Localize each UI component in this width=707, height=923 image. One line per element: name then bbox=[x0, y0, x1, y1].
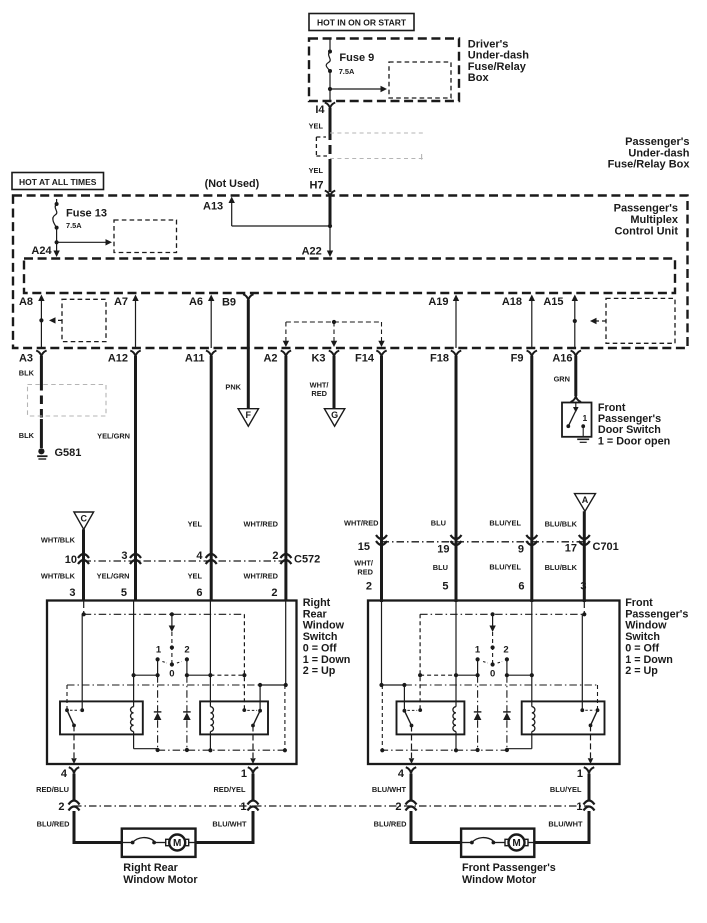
motor internal contact arc bbox=[461, 842, 472, 844]
svg-text:Window: Window bbox=[625, 620, 667, 632]
svg-text:A: A bbox=[582, 495, 589, 505]
left wire to connector bbox=[73, 774, 76, 802]
multiplex internal bus box (dashed) bbox=[24, 259, 675, 294]
svg-text:WHT/BLK: WHT/BLK bbox=[41, 572, 76, 581]
svg-text:Under-dash: Under-dash bbox=[628, 147, 689, 159]
wire F9 (BLU/YEL) bbox=[530, 356, 533, 602]
svg-text:6: 6 bbox=[518, 581, 524, 593]
wire F18 (BLU) bbox=[455, 356, 458, 602]
svg-text:Window Motor: Window Motor bbox=[462, 874, 537, 886]
svg-text:GRN: GRN bbox=[554, 375, 570, 384]
connector C701 pin 15 bbox=[376, 535, 387, 539]
selector contact 2 bbox=[185, 657, 189, 661]
svg-text:YEL/GRN: YEL/GRN bbox=[97, 572, 130, 581]
svg-text:WHT/: WHT/ bbox=[354, 559, 373, 568]
wire A16 (GRN) to door switch bbox=[574, 356, 577, 396]
svg-text:2: 2 bbox=[503, 645, 508, 656]
svg-text:PNK: PNK bbox=[225, 383, 241, 392]
relay K2 pivot feed bbox=[402, 683, 406, 687]
relay K1 coil bbox=[531, 601, 533, 707]
svg-text:WHT/BLK: WHT/BLK bbox=[41, 536, 76, 545]
svg-text:Box: Box bbox=[468, 72, 490, 84]
svg-text:19: 19 bbox=[437, 544, 449, 556]
svg-text:A13: A13 bbox=[203, 201, 223, 213]
svg-text:7.5A: 7.5A bbox=[66, 221, 82, 230]
relay K1 box bbox=[522, 701, 605, 734]
left wire to motor bbox=[74, 811, 122, 843]
svg-text:RED: RED bbox=[311, 389, 327, 398]
Passenger's Multiplex Control Unit outer box (dashed) bbox=[13, 196, 688, 349]
svg-text:A3: A3 bbox=[19, 353, 33, 365]
wire A2 (WHT/RED) bbox=[284, 356, 287, 601]
svg-text:BLU/WHT: BLU/WHT bbox=[212, 820, 247, 829]
selector switch 0/1/2 bbox=[171, 614, 173, 628]
relay K2 output to bottom pin bbox=[411, 726, 413, 759]
svg-text:YEL: YEL bbox=[188, 572, 203, 581]
pin3 to relay K1 contact bbox=[581, 614, 583, 710]
svg-text:Front: Front bbox=[625, 597, 653, 609]
svg-text:BLU: BLU bbox=[433, 563, 448, 572]
pin A11 bbox=[206, 351, 216, 357]
svg-text:2: 2 bbox=[271, 587, 277, 599]
connector C701 pin 9 bbox=[526, 535, 537, 539]
relay K2 pivot feed bbox=[258, 683, 262, 687]
svg-text:Fuse 9: Fuse 9 bbox=[339, 52, 374, 64]
svg-text:Under-dash: Under-dash bbox=[468, 50, 529, 62]
svg-text:A2: A2 bbox=[263, 353, 277, 365]
svg-text:Window Motor: Window Motor bbox=[123, 874, 198, 886]
pin A15 arrow from bus bbox=[574, 299, 576, 349]
svg-text:Fuse 13: Fuse 13 bbox=[66, 208, 107, 220]
pin F9 bbox=[527, 351, 537, 357]
pin I4 bbox=[325, 103, 335, 109]
link contact1 to coilA wire bbox=[134, 674, 158, 676]
svg-text:3: 3 bbox=[69, 587, 75, 599]
svg-text:YEL: YEL bbox=[309, 122, 324, 131]
svg-text:Right: Right bbox=[303, 597, 331, 609]
svg-text:0 = Off: 0 = Off bbox=[303, 642, 337, 654]
svg-text:F: F bbox=[246, 410, 252, 420]
door switch ground bbox=[577, 438, 589, 440]
wire A (BLU/BLK) bbox=[583, 511, 586, 602]
svg-text:I4: I4 bbox=[315, 104, 325, 116]
pin A24 arrow into multiplex unit bbox=[56, 228, 58, 253]
svg-text:BLU/YEL: BLU/YEL bbox=[550, 785, 582, 794]
relay K2 contact bbox=[258, 709, 262, 713]
svg-text:1: 1 bbox=[475, 645, 481, 656]
pin A6 arrow from bus bbox=[210, 299, 212, 349]
svg-text:BLU/WHT: BLU/WHT bbox=[548, 820, 583, 829]
pin A8 arrow from bus bbox=[40, 299, 42, 349]
svg-text:BLU/RED: BLU/RED bbox=[37, 820, 71, 829]
svg-text:BLK: BLK bbox=[19, 431, 35, 440]
pin K3 bbox=[329, 351, 339, 357]
svg-text:Front: Front bbox=[598, 402, 626, 414]
svg-text:6: 6 bbox=[196, 587, 202, 599]
svg-text:F9: F9 bbox=[511, 353, 524, 365]
svg-text:0 = Off: 0 = Off bbox=[625, 642, 659, 654]
svg-text:RED: RED bbox=[357, 568, 373, 577]
diode D2 bbox=[186, 675, 188, 750]
svg-text:Multiplex: Multiplex bbox=[630, 214, 679, 226]
A15 relay sub-box (dashed) bbox=[606, 298, 675, 343]
svg-text:BLU: BLU bbox=[431, 519, 446, 528]
svg-text:Driver's: Driver's bbox=[468, 39, 509, 51]
wire H7 to A22 bbox=[232, 225, 330, 227]
window switch box right rear bbox=[47, 601, 297, 765]
svg-text:HOT IN ON OR START: HOT IN ON OR START bbox=[317, 18, 407, 28]
svg-text:BLU/WHT: BLU/WHT bbox=[372, 785, 407, 794]
svg-text:2 = Up: 2 = Up bbox=[625, 665, 658, 677]
svg-text:(Not Used): (Not Used) bbox=[205, 178, 260, 190]
relay K1 contact bbox=[65, 708, 69, 712]
svg-text:Rear: Rear bbox=[303, 608, 328, 620]
wire C (WHT/BLK) bbox=[82, 529, 85, 601]
corner drop to relay contact bbox=[419, 614, 421, 710]
connector triangle F bbox=[238, 409, 258, 427]
relay K2 box bbox=[200, 701, 268, 734]
connector triangle G bbox=[324, 409, 344, 427]
pin2 drop to diode rail bbox=[284, 685, 286, 750]
svg-text:4: 4 bbox=[61, 768, 68, 780]
svg-text:K3: K3 bbox=[311, 353, 325, 365]
svg-text:2: 2 bbox=[184, 645, 189, 656]
selector contact 2 bbox=[476, 657, 480, 661]
relay K2 coil (from pin6) bbox=[209, 601, 211, 707]
label HOT AT ALL TIMES bbox=[12, 173, 104, 190]
svg-text:F18: F18 bbox=[430, 353, 449, 365]
svg-text:F14: F14 bbox=[355, 353, 375, 365]
relay K1 output to bottom pin bbox=[590, 725, 592, 758]
svg-text:H7: H7 bbox=[309, 180, 323, 192]
svg-text:A7: A7 bbox=[114, 296, 128, 308]
svg-text:1: 1 bbox=[241, 768, 247, 780]
svg-text:YEL: YEL bbox=[188, 520, 203, 529]
connector C572 pin 2 bbox=[280, 554, 291, 558]
svg-text:B9: B9 bbox=[222, 297, 236, 309]
svg-text:A15: A15 bbox=[543, 296, 563, 308]
svg-text:Switch: Switch bbox=[625, 631, 660, 643]
svg-text:A24: A24 bbox=[31, 245, 52, 257]
svg-text:HOT AT ALL TIMES: HOT AT ALL TIMES bbox=[19, 177, 97, 187]
svg-text:2: 2 bbox=[366, 581, 372, 593]
in-line connector box fragment on YEL wire bbox=[316, 136, 326, 138]
svg-text:1: 1 bbox=[156, 645, 162, 656]
svg-text:2: 2 bbox=[395, 801, 401, 813]
wire I4 to H7 (YEL) bbox=[329, 108, 332, 131]
svg-text:0: 0 bbox=[490, 669, 495, 680]
link contact2 to corner column bbox=[456, 674, 478, 676]
wire B9 (PNK) to connector F bbox=[247, 300, 250, 409]
motor M bbox=[154, 842, 166, 844]
svg-text:Right Rear: Right Rear bbox=[123, 862, 178, 874]
wire F14 (WHT/RED) bbox=[380, 356, 383, 602]
wire pin3 drop inside switch bbox=[83, 601, 85, 615]
connector triangle A bbox=[575, 494, 596, 512]
svg-text:WHT/RED: WHT/RED bbox=[344, 519, 379, 528]
motor internal contact arc bbox=[122, 842, 133, 844]
pin F18 bbox=[451, 351, 461, 357]
svg-text:Window: Window bbox=[303, 620, 345, 632]
svg-text:Fuse/Relay Box: Fuse/Relay Box bbox=[608, 159, 691, 171]
diode D2 bbox=[477, 675, 479, 750]
svg-text:10: 10 bbox=[65, 554, 77, 566]
svg-text:A6: A6 bbox=[189, 296, 203, 308]
motor M bbox=[493, 842, 505, 844]
arrow from fuse 9 to relay box bbox=[330, 88, 383, 90]
relay K2 coil (from pin6) bbox=[455, 601, 457, 707]
svg-text:4: 4 bbox=[398, 768, 405, 780]
pin2 feed rail bbox=[285, 601, 287, 686]
svg-text:Fuse/Relay: Fuse/Relay bbox=[468, 61, 527, 73]
right wire to connector bbox=[588, 774, 591, 802]
svg-text:M: M bbox=[512, 838, 520, 849]
connector triangle C bbox=[74, 512, 94, 529]
svg-text:1 = Down: 1 = Down bbox=[303, 654, 351, 666]
pin A3 bbox=[36, 351, 46, 357]
diode rail bbox=[381, 749, 507, 751]
selector switch 0/1/2 bbox=[492, 614, 494, 628]
internal link A2-K3-F14 bbox=[286, 321, 382, 323]
pin F14 bbox=[376, 351, 386, 357]
svg-text:Door Switch: Door Switch bbox=[598, 424, 661, 436]
connector C572 pin 4 bbox=[206, 554, 217, 558]
svg-text:A19: A19 bbox=[428, 296, 448, 308]
A8 relay sub-box (dashed) bbox=[62, 299, 106, 341]
svg-text:Passenger's: Passenger's bbox=[614, 203, 678, 215]
selector contact 1 bbox=[505, 657, 509, 661]
faded Passenger's fuse box outline bbox=[330, 132, 425, 134]
svg-text:7.5A: 7.5A bbox=[339, 67, 355, 76]
svg-text:C701: C701 bbox=[593, 541, 619, 553]
wire K3 (WHT/RED) to connector G bbox=[333, 356, 336, 409]
ground G581 bbox=[38, 448, 44, 454]
svg-text:A16: A16 bbox=[552, 353, 572, 365]
svg-text:1: 1 bbox=[576, 801, 582, 813]
fuse F9 (Fuse 9 7.5A) bbox=[329, 39, 331, 52]
svg-text:3: 3 bbox=[580, 581, 586, 593]
relay K1 pivot feed bbox=[597, 685, 599, 710]
svg-text:Switch: Switch bbox=[303, 631, 338, 643]
svg-text:G: G bbox=[331, 410, 338, 420]
svg-text:BLU/BLK: BLU/BLK bbox=[545, 520, 578, 529]
window motor box bbox=[461, 829, 534, 857]
svg-text:Front Passenger's: Front Passenger's bbox=[462, 862, 556, 874]
in-line connector line across motor wires bbox=[74, 805, 589, 807]
left wire to connector bbox=[410, 774, 413, 802]
svg-text:BLU/YEL: BLU/YEL bbox=[489, 563, 521, 572]
relay K1 contact bbox=[596, 708, 600, 712]
bottom pin right cup bbox=[248, 767, 258, 773]
left wire to motor bbox=[411, 811, 461, 843]
connector line C701 bbox=[382, 541, 585, 543]
svg-text:1: 1 bbox=[577, 768, 583, 780]
diode D1 bbox=[506, 675, 508, 750]
svg-text:A12: A12 bbox=[108, 353, 128, 365]
selector feed line bbox=[84, 613, 245, 615]
right wire to connector bbox=[252, 774, 255, 802]
window switch box front passenger's bbox=[368, 601, 620, 765]
diode rail bbox=[158, 749, 284, 751]
svg-text:BLU/BLK: BLU/BLK bbox=[545, 563, 578, 572]
corner drop to relay contact bbox=[243, 614, 245, 710]
relay K2 box bbox=[397, 701, 465, 734]
svg-text:Passenger's: Passenger's bbox=[625, 608, 688, 620]
svg-text:9: 9 bbox=[518, 544, 524, 556]
fuse 13 sub-box (dashed) bbox=[114, 220, 177, 253]
bottom pin 4 cup bbox=[406, 767, 416, 773]
relay K1 box bbox=[60, 701, 143, 734]
svg-text:A18: A18 bbox=[502, 296, 522, 308]
svg-text:2: 2 bbox=[272, 550, 278, 562]
pin2 drop to diode rail bbox=[381, 685, 383, 750]
svg-text:17: 17 bbox=[565, 543, 577, 555]
pin A12 bbox=[130, 351, 140, 357]
svg-text:C: C bbox=[80, 514, 87, 524]
relay K1 pivot feed bbox=[66, 685, 68, 710]
svg-text:2 = Up: 2 = Up bbox=[303, 665, 336, 677]
wire A12 (YEL/GRN) bbox=[134, 356, 137, 601]
svg-text:A22: A22 bbox=[302, 246, 322, 258]
connector C572 pin 10 bbox=[78, 554, 89, 558]
svg-text:5: 5 bbox=[121, 587, 127, 599]
relay sub-box (dashed) bbox=[389, 62, 451, 98]
pin A22 arrow into multiplex unit bbox=[329, 226, 331, 253]
svg-text:A8: A8 bbox=[19, 296, 33, 308]
pin A7 arrow from bus bbox=[135, 299, 137, 349]
svg-text:2: 2 bbox=[58, 801, 64, 813]
selector feed line bbox=[420, 613, 584, 615]
relay K1 output to bottom pin bbox=[73, 725, 75, 758]
svg-text:Passenger's: Passenger's bbox=[598, 413, 661, 425]
pin2 feed rail bbox=[381, 601, 383, 686]
connector C572 pin 3 bbox=[130, 554, 141, 558]
svg-text:WHT/RED: WHT/RED bbox=[244, 520, 279, 529]
connector C701 pin 17 bbox=[579, 535, 590, 539]
relay K2 contact bbox=[403, 709, 407, 713]
pin A16 bbox=[571, 351, 581, 357]
svg-text:G581: G581 bbox=[55, 447, 82, 459]
bottom pin 4 cup bbox=[69, 767, 79, 773]
Driver's Under-dash Fuse/Relay Box (dashed) bbox=[309, 39, 459, 102]
svg-text:1 = Down: 1 = Down bbox=[625, 654, 673, 666]
diode D1 bbox=[157, 675, 159, 750]
arrow fuse 13 to sub-box bbox=[55, 240, 59, 244]
front passenger's door switch bbox=[562, 403, 592, 437]
link contact2 to corner column bbox=[187, 674, 211, 676]
right wire to motor bbox=[534, 811, 589, 843]
svg-text:A11: A11 bbox=[185, 353, 205, 365]
svg-text:1: 1 bbox=[240, 801, 246, 813]
relay K2 output to bottom pin bbox=[252, 726, 254, 759]
svg-text:1 = Door open: 1 = Door open bbox=[598, 435, 670, 447]
svg-text:C572: C572 bbox=[294, 554, 320, 566]
wire A11 (YEL) bbox=[210, 356, 213, 601]
relay K1 coil (from pin5) bbox=[133, 601, 135, 707]
faded connector box on A3 wire bbox=[28, 385, 107, 417]
svg-text:4: 4 bbox=[196, 550, 203, 562]
fuse F13 (Fuse 13 7.5A) bbox=[56, 199, 58, 204]
bottom pin right cup bbox=[584, 767, 594, 773]
right wire to motor bbox=[196, 811, 254, 843]
svg-text:1: 1 bbox=[583, 413, 588, 423]
pin A2 bbox=[281, 351, 291, 357]
wire pin3 drop inside switch bbox=[583, 601, 585, 615]
label HOT IN ON OR START bbox=[309, 14, 414, 31]
link contact1 to coilA wire bbox=[507, 674, 532, 676]
svg-text:3: 3 bbox=[121, 550, 127, 562]
svg-text:15: 15 bbox=[358, 541, 370, 553]
window motor box bbox=[122, 829, 196, 857]
svg-text:BLU/RED: BLU/RED bbox=[374, 820, 408, 829]
pin A18 arrow from bus bbox=[531, 299, 533, 349]
selector contact 1 bbox=[156, 657, 160, 661]
svg-text:YEL: YEL bbox=[309, 166, 324, 175]
connector C701 pin 19 bbox=[451, 535, 462, 539]
svg-text:5: 5 bbox=[442, 581, 448, 593]
svg-text:BLK: BLK bbox=[19, 369, 35, 378]
svg-text:WHT/RED: WHT/RED bbox=[244, 572, 279, 581]
pin A13 arrow (Not Used) bbox=[231, 201, 233, 227]
pin A19 arrow from bus bbox=[455, 299, 457, 349]
connector line C572 bbox=[84, 560, 286, 562]
svg-text:YEL/GRN: YEL/GRN bbox=[97, 432, 130, 441]
pin3 to relay K1 contact bbox=[81, 614, 83, 710]
svg-text:RED/YEL: RED/YEL bbox=[213, 785, 246, 794]
svg-text:M: M bbox=[173, 838, 181, 849]
svg-text:BLU/YEL: BLU/YEL bbox=[489, 519, 521, 528]
wire A3 (BLK) to ground bbox=[40, 356, 43, 382]
svg-text:RED/BLU: RED/BLU bbox=[36, 785, 69, 794]
svg-text:0: 0 bbox=[169, 669, 174, 680]
svg-text:Passenger's: Passenger's bbox=[625, 136, 689, 148]
svg-text:Control Unit: Control Unit bbox=[614, 226, 678, 238]
